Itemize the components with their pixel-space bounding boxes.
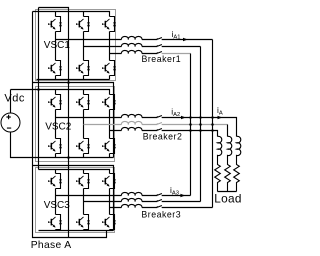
breaker switch 2-1 (157, 116, 162, 118)
VSC3 phase line 2 wires (84, 201, 201, 203)
phase bus vertical v2 (200, 47, 202, 202)
svg-text:Breaker3: Breaker3 (141, 210, 181, 220)
VSC3 feed line to bottom bus (33, 166, 114, 231)
IGBT-diode cell Q5a (VSC3 top leg1) (49, 174, 63, 189)
DC rail B (38, 8, 40, 170)
VSC2 phase line 2 wires (light) (84, 124, 228, 126)
breaker switch 1-2 (157, 45, 162, 47)
inductor L13 (121, 50, 142, 53)
svg-text:Breaker2: Breaker2 (143, 132, 183, 142)
svg-text:Load: Load (214, 192, 241, 206)
IGBT-diode cell Q1b (VSC1 top leg2) (77, 17, 91, 32)
phase bus vertical v3 (212, 40, 214, 208)
VSC3 bottom bus (39, 230, 114, 231)
breaker switch 3-1 (157, 194, 162, 196)
VSC3 leg mid verticals (56, 189, 110, 215)
VSC1 bottom bus (37, 76, 110, 80)
VSC2 box (36, 87, 115, 162)
inductor L23 (121, 127, 142, 130)
VSC3 phase line 3 wires (110, 207, 213, 209)
load branch 2 (L+R) (225, 136, 232, 191)
load branch 1 (L+R) (215, 136, 222, 191)
inductor L21 (121, 114, 142, 117)
VSC1 leg mid verticals (56, 32, 110, 61)
VSC2 leg mid verticals (56, 110, 110, 139)
breaker switch 2-3 (157, 129, 162, 131)
VSC2 feed line to bottom bus (33, 83, 114, 158)
inductor L32 (121, 198, 142, 201)
junction: return rail / Vdc minus (67, 156, 70, 159)
IGBT-diode cell Q4b (VSC2 bot leg2) (77, 139, 91, 154)
IGBT-diode cell Q6a (VSC3 bot leg1) (49, 215, 63, 230)
inductor L11 (121, 36, 142, 39)
svg-text:Vdc: Vdc (4, 92, 24, 104)
VSC2 phase line 3 wires (110, 131, 218, 137)
VSC3 top bus (39, 170, 110, 174)
IGBT-diode cell Q6c (VSC3 bot leg3) (103, 215, 117, 230)
breaker switch 1-3 (157, 52, 162, 54)
IGBT-diode cell Q3b (VSC2 top leg2) (77, 95, 91, 110)
VSC1 box (36, 10, 116, 81)
VSC2 bottom bus stubs (56, 154, 110, 158)
breaker switch 1-1 (157, 38, 162, 40)
VSC3 phase line 1 wires (56, 195, 191, 197)
IGBT-diode cell Q6b (VSC3 bot leg2) (77, 215, 91, 230)
svg-text:VSC2: VSC2 (45, 122, 72, 133)
arrow iA (218, 116, 223, 119)
return rail jumper from rail B (39, 8, 69, 238)
IGBT-diode cell Q5b (VSC3 top leg2) (77, 174, 91, 189)
IGBT-diode cell Q1a (VSC1 top leg1) (49, 17, 63, 32)
IGBT-diode cell Q3a (VSC2 top leg1) (49, 95, 63, 110)
VSC3 box (36, 168, 115, 233)
IGBT-diode cell Q2c (VSC1 bot leg3) (103, 61, 117, 76)
DC rail A with bottom U-loop into VSC3 bottom bus (33, 12, 107, 238)
VSC2 top bus (11, 90, 110, 95)
VSC1 phase line 3 wires (110, 53, 158, 55)
inductor L31 (121, 192, 142, 195)
IGBT-diode cell Q4a (VSC2 bot leg1) (49, 139, 63, 154)
IGBT-diode cell Q4c (VSC2 bot leg3) (103, 139, 117, 154)
load bottom bar (218, 191, 237, 193)
arrow iA2 (181, 116, 186, 119)
arrow iA3 (180, 194, 185, 197)
IGBT-diode cell Q1c (VSC1 top leg3) (103, 17, 117, 32)
junction: return rail / VSC2 feed (67, 81, 70, 84)
svg-text:VSC1: VSC1 (44, 40, 71, 51)
inductor L33 (121, 204, 142, 207)
VSC1 phase line 2 wires (84, 46, 201, 48)
IGBT-diode cell Q2a (VSC1 bot leg1) (49, 61, 63, 76)
breaker switch 2-2 (157, 123, 162, 125)
IGBT-diode cell Q3c (VSC2 top leg3) (103, 95, 117, 110)
VSC2 phase line 1 wires (56, 118, 237, 137)
inductor L12 (121, 43, 142, 46)
phase bus vertical v1 (190, 54, 192, 196)
IGBT-diode cell Q2b (VSC1 bot leg2) (77, 61, 91, 76)
svg-text:Phase A: Phase A (31, 240, 72, 251)
breaker switch 3-3 (157, 206, 162, 208)
IGBT-diode cell Q5c (VSC3 top leg3) (103, 174, 117, 189)
load branch 3 (L+R) (234, 136, 241, 191)
junction: Vdc plus / rail B (37, 88, 40, 91)
VSC1 phase line 1 wires (56, 39, 213, 41)
wire: Vdc - down, right along VSC2 bottom bus (11, 132, 114, 158)
junction dots phase bus (189, 116, 214, 132)
svg-text:Breaker1: Breaker1 (142, 54, 182, 64)
svg-text:VSC3: VSC3 (44, 200, 71, 211)
wire: Vdc + up to VSC2 top bus (10, 90, 12, 114)
breaker switch 3-2 (157, 200, 162, 202)
DC source Vdc (1, 113, 20, 132)
arrow iA1 (183, 38, 188, 41)
VSC1 top bus (33, 12, 110, 17)
inductor L22 (121, 121, 142, 124)
